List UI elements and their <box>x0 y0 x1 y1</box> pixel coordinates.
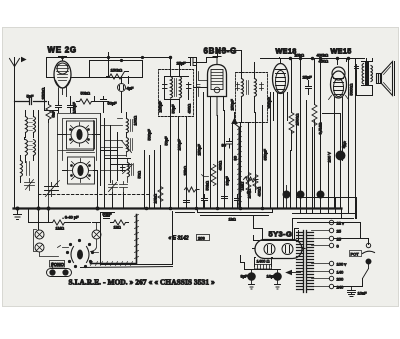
svg-text:100Ω: 100Ω <box>133 116 138 126</box>
capacitors hanging above bus <box>184 193 241 209</box>
wire 6BN8 plate to IF2 <box>180 51 242 73</box>
svg-text:10nF: 10nF <box>358 291 368 296</box>
svg-text:. 6-40 pF: . 6-40 pF <box>63 215 80 220</box>
wire left risers <box>15 88 45 209</box>
switch frame wires <box>49 114 101 209</box>
svg-text:50kΩ: 50kΩ <box>81 91 90 96</box>
variable capacitor tuning <box>45 181 60 197</box>
svg-text:S.I.A.R.E. - MOD. » 267 « « CH: S.I.A.R.E. - MOD. » 267 « « CHASSIS 3531… <box>69 278 216 287</box>
wafer switch S1 <box>67 121 95 149</box>
wire grid top mid <box>95 97 109 102</box>
svg-text:100 V: 100 V <box>327 152 332 163</box>
dial lamp L1 <box>35 230 44 239</box>
trimmer pair left <box>25 179 35 191</box>
FONO label <box>50 261 65 268</box>
svg-text:WE15: WE15 <box>331 47 352 56</box>
capacitor 30uF <box>101 97 118 107</box>
antenna coil secondary <box>26 140 36 163</box>
crossing wires mixer <box>98 114 131 209</box>
svg-text:25: 25 <box>337 229 342 234</box>
svg-text:50pF: 50pF <box>108 101 118 106</box>
resistor 1k under bus <box>103 212 129 230</box>
svg-text:5Y3-G: 5Y3-G <box>269 230 293 239</box>
capacitor 8uF psu <box>241 270 281 290</box>
resistor 15k <box>107 59 129 84</box>
svg-text:WE 2G: WE 2G <box>48 46 77 55</box>
resistor 50k <box>77 91 95 105</box>
svg-text:1500Ω: 1500Ω <box>295 114 300 126</box>
capacitor wire topright <box>372 59 374 62</box>
svg-text:FONO: FONO <box>51 262 64 267</box>
power transformer <box>254 231 314 293</box>
IF transformer T2 dashed box <box>230 63 272 123</box>
dial lamp L2 <box>34 230 59 257</box>
mains switch <box>363 243 375 278</box>
resistor 0.5M vertical <box>312 59 323 208</box>
resistor 1400 filament <box>255 258 273 270</box>
tube WE15 <box>329 67 349 209</box>
POT label <box>350 251 362 257</box>
bus junction dots <box>16 207 264 210</box>
svg-text:50pF: 50pF <box>103 212 113 217</box>
label E3142 <box>169 235 210 242</box>
IF transformer T1 dashed box <box>158 58 207 117</box>
svg-text:POT: POT <box>351 252 360 257</box>
svg-text:400Ω: 400Ω <box>218 161 223 171</box>
svg-text:100pF: 100pF <box>72 102 77 114</box>
oscillator coil cluster 3 <box>121 159 142 183</box>
dial lamp L3 <box>91 223 102 252</box>
tube WE2G <box>54 57 71 102</box>
svg-text:100pF: 100pF <box>177 139 182 151</box>
svg-text:1400 Ω: 1400 Ω <box>257 259 270 264</box>
svg-text:0,5MΩ: 0,5MΩ <box>318 123 323 135</box>
ground bus thick <box>14 207 342 209</box>
wire bus to switch right <box>176 209 273 216</box>
capacitor 5pF <box>15 94 47 105</box>
resistor 400 vertical <box>253 175 262 197</box>
svg-text:250pF: 250pF <box>197 144 202 156</box>
terminal board box <box>293 191 357 219</box>
transformer secondary taps <box>312 220 369 248</box>
capacitor 100pF <box>68 97 77 114</box>
dial frame rectangle <box>81 212 173 268</box>
svg-text:1MΩ: 1MΩ <box>56 226 65 231</box>
svg-text:« E 3142: « E 3142 <box>169 236 189 242</box>
resistor 50k vertical <box>153 187 164 204</box>
phono jack <box>47 263 72 277</box>
arrow to field coil <box>241 256 301 275</box>
svg-text:WE18: WE18 <box>276 47 297 56</box>
resistor 1500 vertical <box>289 59 300 151</box>
antenna coil primary <box>26 111 36 138</box>
svg-text:200: 200 <box>337 277 344 282</box>
rail junction dots <box>61 49 349 61</box>
capacitor 25pF top <box>177 58 207 66</box>
mixer horizontal jogs <box>101 119 127 171</box>
svg-text:25kΩ: 25kΩ <box>183 166 188 175</box>
shielded cable hatched <box>91 215 137 264</box>
tube WE18 <box>273 59 289 121</box>
oscillator coil mid <box>127 113 138 137</box>
svg-text:5pF: 5pF <box>27 94 34 99</box>
svg-text:1kΩ: 1kΩ <box>114 225 121 230</box>
svg-text:50pF: 50pF <box>164 136 169 146</box>
vertical comb wires to bus <box>145 59 356 219</box>
ground symbol left <box>14 209 22 220</box>
shielded detector lead <box>238 128 240 208</box>
svg-text:400Ω: 400Ω <box>257 187 262 197</box>
svg-text:100 v: 100 v <box>337 262 347 267</box>
capacitor 5nF <box>51 102 62 118</box>
resistor 1M dial <box>29 220 91 231</box>
svg-text:650μF: 650μF <box>263 149 268 161</box>
capacitor 8uF 100V <box>323 114 349 171</box>
tube 6BN8 <box>197 57 227 121</box>
top rail right <box>189 58 365 59</box>
resistor 100 horizontal above bus <box>244 177 259 182</box>
svg-text:5nF: 5nF <box>51 110 56 117</box>
rectifier 5Y3-G <box>253 240 306 259</box>
svg-text:250pF: 250pF <box>230 99 235 111</box>
svg-text:20kΩ: 20kΩ <box>295 53 304 58</box>
resistor 1k horizontal above bus <box>185 187 200 192</box>
resistor 1M vertical <box>240 173 252 194</box>
svg-text:50Ω: 50Ω <box>137 171 142 178</box>
capacitor 10nF mains <box>348 287 368 297</box>
output transformer <box>349 62 373 96</box>
oscillator coil mid 2 <box>122 138 133 157</box>
svg-text:400kΩ: 400kΩ <box>317 53 329 58</box>
svg-text:80: 80 <box>233 155 238 160</box>
svg-text:140: 140 <box>337 270 344 275</box>
wires to coils from switches <box>45 88 101 171</box>
5Y3 plate wires <box>254 216 299 241</box>
transformer primary taps <box>312 261 363 289</box>
svg-text:500pF: 500pF <box>147 129 152 141</box>
wire junction area <box>104 53 122 113</box>
svg-text:1kΩ: 1kΩ <box>229 217 236 222</box>
capacitor 16uF psu <box>267 270 282 290</box>
svg-text:50pF: 50pF <box>171 104 176 114</box>
svg-text:50kΩ: 50kΩ <box>205 181 210 190</box>
svg-text:1MΩ: 1MΩ <box>240 182 245 191</box>
band switch rotary <box>58 239 99 267</box>
resistor 250k <box>41 88 52 123</box>
svg-text:22 v: 22 v <box>337 221 345 226</box>
wires right section <box>321 59 373 96</box>
capacitor 80pF mid <box>227 139 233 149</box>
svg-text:100μF: 100μF <box>158 101 163 113</box>
wire top rail left <box>47 58 171 78</box>
svg-text:150kΩ: 150kΩ <box>111 68 123 73</box>
speaker <box>377 62 395 96</box>
svg-text:203: 203 <box>198 236 205 241</box>
svg-text:30μF: 30μF <box>225 176 230 186</box>
svg-text:4μF: 4μF <box>127 86 135 91</box>
svg-text:5000Ω: 5000Ω <box>349 84 354 96</box>
mechanical gang dashed line <box>39 194 149 196</box>
oscillator coil left <box>21 156 30 183</box>
svg-text:10kΩ: 10kΩ <box>153 194 158 203</box>
svg-text:450Ω: 450Ω <box>319 59 329 64</box>
resistor volume 50k <box>202 165 217 191</box>
capacitor 25uF left of WE15 <box>303 75 313 95</box>
wires dial area <box>29 209 101 231</box>
svg-text:25μF: 25μF <box>303 75 313 80</box>
wafer switch S2 <box>68 157 95 184</box>
antenna <box>10 58 26 102</box>
svg-text:8μF: 8μF <box>241 274 249 279</box>
padder trimmers <box>109 181 128 193</box>
capacitor 4uF <box>118 77 135 99</box>
B plus rail right <box>293 209 361 241</box>
capacitor dots above rail <box>283 186 324 208</box>
svg-text:400Ω: 400Ω <box>187 104 192 114</box>
